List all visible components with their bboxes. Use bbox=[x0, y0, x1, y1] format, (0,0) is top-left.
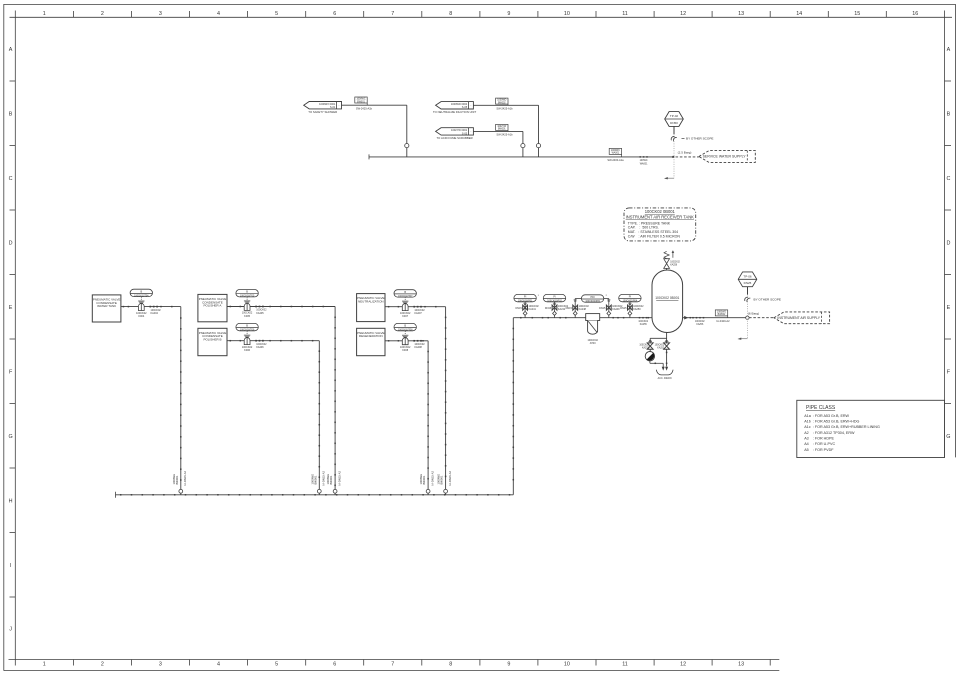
svg-text:NEUTRALIZATION: NEUTRALIZATION bbox=[358, 300, 384, 304]
node: reducer on branch 2 bbox=[536, 144, 540, 148]
svg-text:K004: K004 bbox=[138, 315, 144, 318]
svg-text:4: 4 bbox=[217, 11, 220, 17]
svg-text:BW001: BW001 bbox=[498, 129, 506, 131]
svg-text:IA-0420-A2: IA-0420-A2 bbox=[716, 319, 730, 323]
node: riser 1 junction bbox=[179, 489, 183, 493]
wire: to instrument air supply arrow bbox=[749, 317, 774, 319]
svg-text:: FOR HDPE: : FOR HDPE bbox=[813, 437, 835, 441]
svg-text:100CK02: 100CK02 bbox=[670, 261, 680, 263]
svg-text:PDI: PDI bbox=[591, 296, 595, 299]
gauge isolation valve KA250 bbox=[629, 302, 631, 318]
instrument PI 100CK02/P02 bbox=[543, 294, 565, 302]
svg-text:SW-2425-A1b: SW-2425-A1b bbox=[356, 106, 373, 110]
off-page connector: TO NEUTRALIZE DILUTION UNIT bbox=[436, 102, 474, 109]
svg-text:BW001: BW001 bbox=[422, 475, 426, 484]
instrument pill 100CK02/T04 bbox=[130, 289, 152, 297]
wire: acid fume scrubber branch bbox=[473, 130, 523, 132]
wire: safety shower branch bbox=[342, 104, 407, 106]
svg-text:TP-02: TP-02 bbox=[670, 114, 679, 118]
drain valve 100CK02 KA253 bbox=[647, 343, 653, 349]
svg-text:KA405: KA405 bbox=[256, 312, 264, 315]
svg-text:KA406: KA406 bbox=[256, 346, 264, 349]
tie-in point TP-06 bbox=[738, 272, 757, 287]
wire: air to neutralization valve bbox=[385, 306, 446, 308]
wire: neutralize dilution branch bbox=[473, 104, 538, 106]
svg-text:KA404: KA404 bbox=[151, 312, 159, 315]
wire: manifold riser to air line bbox=[512, 318, 514, 495]
svg-text:ACC. DRAIN: ACC. DRAIN bbox=[658, 377, 672, 380]
svg-text:10: 10 bbox=[564, 662, 570, 668]
wire: instrument air distribution manifold bbox=[116, 494, 514, 496]
svg-text:A3: A3 bbox=[804, 437, 809, 441]
svg-text:: FOR A53 Gr.B, ERW: : FOR A53 Gr.B, ERW bbox=[813, 414, 850, 418]
gauge isolation valve KA242 bbox=[554, 302, 556, 318]
svg-text:KA258: KA258 bbox=[670, 263, 678, 266]
svg-text:KA408: KA408 bbox=[414, 346, 422, 349]
svg-text:A1a: A1a bbox=[804, 414, 812, 418]
svg-text:C: C bbox=[9, 176, 13, 182]
svg-text:S-05: S-05 bbox=[462, 131, 468, 135]
svg-text:K006: K006 bbox=[244, 349, 250, 352]
pneumatic supply valve K005 bbox=[246, 297, 248, 301]
tap valve KA248 bbox=[574, 299, 576, 318]
instrument pill 100CK02/T06 bbox=[236, 323, 258, 331]
svg-text:12: 12 bbox=[680, 662, 686, 668]
svg-text:J: J bbox=[9, 626, 12, 632]
tie-in point TP-02 bbox=[665, 112, 684, 127]
svg-text:I: I bbox=[10, 563, 12, 569]
svg-text:KA407: KA407 bbox=[414, 312, 422, 315]
svg-text:(2.5 Barg): (2.5 Barg) bbox=[678, 151, 692, 155]
svg-text:IA-DN15-A2: IA-DN15-A2 bbox=[337, 471, 341, 486]
svg-text:: FOR PVDF: : FOR PVDF bbox=[813, 448, 834, 452]
wire: air to polisher B valve bbox=[227, 340, 319, 342]
svg-text:B: B bbox=[9, 112, 13, 118]
svg-text:1000WG: 1000WG bbox=[717, 312, 726, 314]
pipe class legend bbox=[797, 400, 945, 457]
svg-text:100CK02: 100CK02 bbox=[655, 344, 665, 346]
svg-text:100CK02/P03: 100CK02/P03 bbox=[585, 301, 600, 303]
svg-text:10: 10 bbox=[564, 11, 570, 17]
svg-text:KA256: KA256 bbox=[696, 323, 704, 326]
svg-text:11: 11 bbox=[622, 662, 628, 668]
svg-text:KA249: KA249 bbox=[612, 308, 620, 311]
svg-text:WATER TANK: WATER TANK bbox=[97, 304, 116, 308]
svg-text:AT00: AT00 bbox=[590, 342, 596, 345]
svg-text:DN15: DN15 bbox=[545, 307, 552, 310]
svg-text:D: D bbox=[9, 241, 13, 247]
wire: riser column 2a bbox=[334, 307, 336, 495]
wire: DP tap right bbox=[604, 298, 609, 300]
svg-text:K007: K007 bbox=[402, 315, 408, 318]
svg-text:C: C bbox=[946, 176, 950, 182]
svg-text:1000WD: 1000WD bbox=[497, 100, 506, 102]
svg-text:BY OTHER SCOPE: BY OTHER SCOPE bbox=[754, 297, 781, 301]
svg-text:BW002: BW002 bbox=[498, 102, 506, 104]
safety relief valve 100CK02 KA258 bbox=[666, 268, 668, 270]
wire: riser column 3a bbox=[445, 307, 447, 495]
svg-text:A: A bbox=[9, 47, 13, 53]
svg-text:BW001: BW001 bbox=[440, 475, 444, 484]
svg-text:6: 6 bbox=[333, 11, 336, 17]
svg-text:S-01: S-01 bbox=[330, 105, 336, 109]
wire: DP tap left bbox=[575, 298, 581, 300]
svg-text:100CK02: 100CK02 bbox=[695, 321, 705, 323]
wire: to service water supply arrow bbox=[676, 156, 699, 158]
svg-text:A1b: A1b bbox=[804, 420, 811, 424]
wire: air to regeneration valve bbox=[385, 340, 428, 342]
hose connection 100CK02 KA255 at tank inlet bbox=[639, 317, 641, 319]
air filter 100CK02 AT00 bbox=[586, 314, 600, 321]
svg-text:4: 4 bbox=[217, 662, 220, 668]
open drain funnel bbox=[656, 370, 673, 375]
svg-text:: FOR A53 Gr.B, ERW+HDG: : FOR A53 Gr.B, ERW+HDG bbox=[813, 420, 860, 424]
svg-text:6: 6 bbox=[333, 662, 336, 668]
svg-text:S-05: S-05 bbox=[462, 105, 468, 109]
svg-text:5: 5 bbox=[275, 662, 278, 668]
wire: tie-in drop bbox=[673, 126, 675, 134]
svg-text:IA-DN15-A2: IA-DN15-A2 bbox=[430, 471, 434, 486]
drain arrow below instrument air junction bbox=[747, 319, 749, 339]
wire: service water header bbox=[369, 156, 673, 158]
instrument PDI 100CK02/P03 bbox=[581, 295, 603, 303]
instrument pill 100CK02/T08 bbox=[394, 323, 416, 331]
svg-text:A1c: A1c bbox=[804, 425, 811, 429]
package box: PNEUMATIC VALVE NEUTRALIZATION bbox=[357, 294, 385, 322]
svg-text:KA252: KA252 bbox=[657, 346, 665, 349]
svg-text:K008: K008 bbox=[402, 349, 408, 352]
package box: PNEUMATIC VALVE REGENERATION bbox=[357, 328, 385, 355]
svg-text:TO ACID FUME SCRUBBER: TO ACID FUME SCRUBBER bbox=[437, 136, 473, 140]
svg-text:7: 7 bbox=[391, 11, 394, 17]
svg-text:TP-06: TP-06 bbox=[743, 275, 752, 279]
package box: PNEUMATIC VALVE CONDENSATE WATER TANK bbox=[92, 295, 121, 322]
line label 1002YW/BW001 bbox=[496, 124, 508, 130]
svg-text:SW-2425-A1b: SW-2425-A1b bbox=[496, 133, 513, 137]
wire: riser column 3b bbox=[427, 341, 429, 495]
svg-text:1000WC: 1000WC bbox=[356, 99, 365, 101]
svg-text:PIPE CLASS: PIPE CLASS bbox=[806, 405, 836, 411]
node: instrument air tie-in junction bbox=[746, 316, 749, 319]
svg-text:3: 3 bbox=[159, 662, 162, 668]
wire: riser column 1 bbox=[180, 307, 182, 495]
svg-text:: FOR A312 TP304, ERW: : FOR A312 TP304, ERW bbox=[813, 431, 855, 435]
drain valve 100CK02 KA252 bbox=[664, 343, 670, 349]
svg-text:BW001: BW001 bbox=[357, 101, 365, 103]
svg-text:D: D bbox=[946, 241, 950, 247]
hose station 100WC WA001 bbox=[639, 156, 641, 158]
svg-text:E: E bbox=[9, 305, 13, 311]
svg-text:1: 1 bbox=[43, 11, 46, 17]
svg-text:A5: A5 bbox=[804, 448, 809, 452]
vessel 100CK02 0B001 (instrument air receiver tank) bbox=[652, 270, 683, 333]
line label 1000WC/WA001 on header bbox=[609, 148, 621, 154]
svg-text:11: 11 bbox=[622, 11, 628, 17]
svg-text:G: G bbox=[946, 434, 950, 440]
svg-text:DN15: DN15 bbox=[620, 307, 627, 310]
svg-text:9: 9 bbox=[507, 662, 510, 668]
svg-text:1000WC: 1000WC bbox=[611, 150, 620, 152]
svg-text:SW-2425-A1b: SW-2425-A1b bbox=[496, 106, 513, 110]
line label 1000WC/BW001 bbox=[355, 97, 367, 103]
pneumatic supply valve K006 bbox=[246, 331, 248, 335]
svg-text:3: 3 bbox=[159, 11, 162, 17]
svg-text:A: A bbox=[947, 47, 951, 53]
svg-text:100CK02: 100CK02 bbox=[639, 344, 649, 346]
svg-text:POLISHER B: POLISHER B bbox=[203, 338, 221, 342]
svg-text:15: 15 bbox=[854, 11, 860, 17]
svg-text:PI: PI bbox=[524, 296, 527, 299]
scope break marker (service water) bbox=[671, 136, 674, 140]
svg-text:DN25: DN25 bbox=[744, 281, 752, 285]
svg-text:BW001: BW001 bbox=[313, 475, 317, 484]
node: riser 2b junction bbox=[317, 489, 321, 493]
svg-text:12: 12 bbox=[680, 11, 686, 17]
wire: tank outlet line bbox=[683, 317, 748, 319]
svg-text:KA248: KA248 bbox=[579, 308, 587, 311]
svg-text:7: 7 bbox=[391, 662, 394, 668]
svg-text:A2: A2 bbox=[804, 431, 809, 435]
auto drain trap bbox=[645, 352, 654, 361]
svg-text:K005: K005 bbox=[244, 315, 250, 318]
node: reducer on branch 3 bbox=[521, 144, 525, 148]
node: reducer on branch 1 bbox=[405, 144, 409, 148]
svg-text:REGENERATION: REGENERATION bbox=[359, 334, 383, 338]
pneumatic supply valve K008 bbox=[404, 331, 406, 335]
package box: PNEUMATIC VALVE CONDENSATE POLISHER A bbox=[198, 294, 227, 321]
instrument pill 100CK02/T07 bbox=[394, 290, 416, 298]
pneumatic supply valve K004 bbox=[140, 297, 142, 301]
svg-text:BW001: BW001 bbox=[329, 475, 333, 484]
gauge isolation valve KA241 bbox=[524, 302, 526, 318]
svg-text:2: 2 bbox=[101, 11, 104, 17]
svg-text:H: H bbox=[9, 499, 13, 505]
off-page connector: TO ACID FUME SCRUBBER bbox=[436, 128, 474, 135]
tap valve KA249 bbox=[608, 299, 610, 318]
drain discharge arrows bbox=[662, 363, 664, 367]
source arrow: INSTRUMENT AIR SUPPLY bbox=[774, 312, 830, 324]
equipment note: INSTRUMENT AIR RECEIVER TANK bbox=[624, 208, 696, 241]
svg-text:IA-DN15-A2: IA-DN15-A2 bbox=[448, 471, 452, 486]
svg-text:BW001: BW001 bbox=[175, 475, 179, 484]
node: riser 3a junction bbox=[444, 489, 448, 493]
svg-text:A4: A4 bbox=[804, 442, 809, 446]
line label 1000WG/BW002 bbox=[715, 310, 727, 316]
svg-text:2: 2 bbox=[101, 662, 104, 668]
svg-text:: FOR U-PVC: : FOR U-PVC bbox=[813, 442, 836, 446]
svg-text:DN50: DN50 bbox=[670, 121, 678, 125]
line label 1000WD/BW002 bbox=[496, 98, 508, 104]
node: riser 2a junction bbox=[333, 489, 337, 493]
svg-text:KA241: KA241 bbox=[529, 308, 537, 311]
svg-text:SW-2400-A1a: SW-2400-A1a bbox=[607, 158, 624, 162]
wire: tie-in drop (air) bbox=[747, 287, 749, 295]
svg-text:IA-DN15-A2: IA-DN15-A2 bbox=[322, 471, 326, 486]
node: service water tie-in junction bbox=[672, 156, 674, 158]
svg-text:PI: PI bbox=[553, 296, 556, 299]
svg-text:14: 14 bbox=[796, 11, 802, 17]
svg-text:16: 16 bbox=[912, 11, 918, 17]
svg-text:POLISHER A: POLISHER A bbox=[204, 304, 222, 308]
svg-text:DN15: DN15 bbox=[599, 307, 606, 310]
svg-text:PI: PI bbox=[629, 296, 632, 299]
svg-text:INSTRUMENT AIR SUPPLY: INSTRUMENT AIR SUPPLY bbox=[777, 316, 820, 320]
wire: air to condensate water tank valve bbox=[121, 306, 181, 308]
svg-text:13: 13 bbox=[738, 662, 744, 668]
svg-text:WA001: WA001 bbox=[612, 152, 620, 155]
svg-text:BW002: BW002 bbox=[718, 314, 726, 316]
off-page connector: TO SAFETY SHOWER bbox=[304, 102, 342, 109]
svg-text:(6 Barg): (6 Barg) bbox=[748, 311, 759, 315]
scope break marker (instrument air) bbox=[745, 297, 748, 301]
package box: PNEUMATIC VALVE CONDENSATE POLISHER B bbox=[198, 328, 227, 355]
hose connection 100CK02 KA256 bbox=[696, 317, 698, 319]
wire: air to polisher A valve bbox=[227, 306, 335, 308]
instrument PI 100CK02/P01 bbox=[514, 294, 536, 302]
source arrow: SERVICE WATER SUPPLY bbox=[699, 151, 755, 163]
svg-text:100CK02 0B001: 100CK02 0B001 bbox=[655, 296, 679, 300]
svg-text:9: 9 bbox=[507, 11, 510, 17]
svg-text:KA250: KA250 bbox=[633, 308, 641, 311]
svg-text:DN15: DN15 bbox=[515, 307, 522, 310]
svg-text:: FOR A53 Gr.B, ERW+RUBBER LIN: : FOR A53 Gr.B, ERW+RUBBER LINING bbox=[813, 425, 880, 429]
node: riser 3b junction bbox=[426, 489, 430, 493]
drain arrow below service water junction bbox=[673, 157, 675, 178]
pneumatic supply valve K007 bbox=[404, 297, 406, 301]
svg-text:TO SAFETY SHOWER: TO SAFETY SHOWER bbox=[308, 110, 337, 114]
svg-text:KA255: KA255 bbox=[640, 323, 648, 326]
instrument PI 100CK02/P04 bbox=[619, 294, 641, 302]
svg-text:SERVICE WATER SUPPLY: SERVICE WATER SUPPLY bbox=[703, 155, 747, 159]
svg-text:INSTRUMENT AIR RECEIVER TANK: INSTRUMENT AIR RECEIVER TANK bbox=[626, 214, 695, 219]
svg-text:5: 5 bbox=[275, 11, 278, 17]
svg-text:WA001: WA001 bbox=[640, 162, 648, 165]
svg-text:IA-DN15-A2: IA-DN15-A2 bbox=[183, 471, 187, 486]
svg-text:1: 1 bbox=[43, 662, 46, 668]
svg-text:1002YW: 1002YW bbox=[497, 126, 507, 128]
svg-text:100CK02: 100CK02 bbox=[638, 321, 648, 323]
wire: trap discharge bbox=[649, 361, 651, 363]
wire: riser column 2b bbox=[318, 341, 320, 495]
svg-text:E: E bbox=[947, 305, 951, 311]
wire: instrument air treatment line bbox=[513, 317, 652, 319]
svg-text:13: 13 bbox=[738, 11, 744, 17]
instrument pill 100CK02/T05 bbox=[236, 290, 258, 298]
svg-text:BY OTHER SCOPE: BY OTHER SCOPE bbox=[686, 137, 713, 141]
svg-text:C/W : AIR FILTER 0.5 MICRON: C/W : AIR FILTER 0.5 MICRON bbox=[628, 234, 681, 238]
svg-text:G: G bbox=[8, 434, 12, 440]
svg-text:TO NEUTRALIZE DILUTION UNIT: TO NEUTRALIZE DILUTION UNIT bbox=[433, 110, 476, 114]
wire: tank bottom drain bbox=[666, 333, 668, 367]
svg-text:B: B bbox=[947, 112, 951, 118]
svg-text:8: 8 bbox=[449, 11, 452, 17]
svg-text:KA253: KA253 bbox=[642, 346, 650, 349]
svg-text:DN15: DN15 bbox=[566, 307, 573, 310]
svg-text:8: 8 bbox=[449, 662, 452, 668]
